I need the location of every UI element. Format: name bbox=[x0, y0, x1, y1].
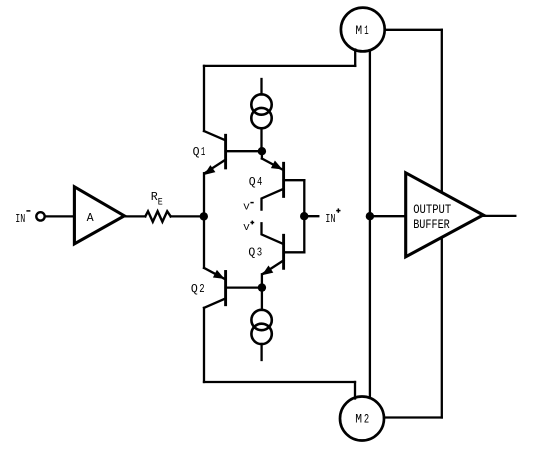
svg-text:Q: Q bbox=[248, 246, 255, 259]
svg-text:E: E bbox=[158, 198, 163, 209]
svg-text:M: M bbox=[355, 24, 362, 38]
svg-text:IN: IN bbox=[15, 212, 25, 226]
svg-text:1: 1 bbox=[364, 24, 368, 38]
svg-text:M: M bbox=[355, 413, 362, 427]
svg-text:OUTPUT: OUTPUT bbox=[413, 202, 451, 217]
svg-text:2: 2 bbox=[199, 283, 204, 296]
svg-text:IN: IN bbox=[325, 212, 335, 226]
svg-text:1: 1 bbox=[201, 146, 205, 159]
svg-text:V: V bbox=[243, 222, 250, 233]
svg-text:V: V bbox=[243, 202, 250, 213]
svg-text:3: 3 bbox=[257, 246, 262, 259]
svg-text:Q: Q bbox=[249, 176, 256, 189]
svg-text:Q: Q bbox=[191, 283, 198, 296]
svg-text:Q: Q bbox=[193, 146, 200, 159]
svg-text:2: 2 bbox=[364, 413, 369, 427]
svg-text:4: 4 bbox=[257, 176, 262, 189]
svg-text:A: A bbox=[87, 211, 95, 225]
svg-text:BUFFER: BUFFER bbox=[413, 217, 450, 232]
